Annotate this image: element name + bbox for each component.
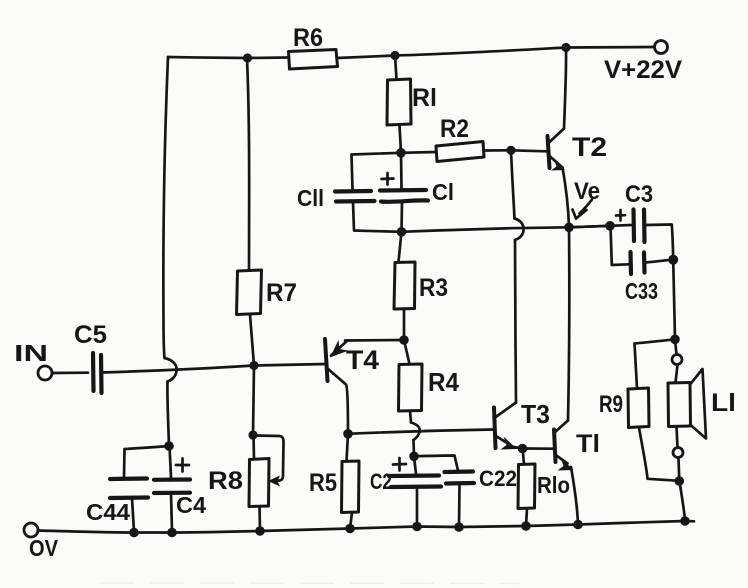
wire R1 bottom lead [400, 125, 402, 153]
capacitor C3 [634, 210, 645, 243]
resistor R1 [387, 79, 411, 125]
wire left rail lower segment [167, 382, 169, 447]
svg-text:OV: OV [29, 535, 59, 561]
wire R4 top lead [404, 340, 410, 364]
junction top rail R7 [243, 53, 252, 62]
junction R8 wiper node [248, 430, 257, 439]
svg-text:C33: C33 [625, 278, 658, 304]
resistor R10 [518, 464, 535, 509]
wire R8 bottom lead [258, 507, 261, 531]
wire C3 left lead [610, 224, 631, 228]
junction speaker R9 top node [670, 335, 680, 345]
terminal IN [38, 366, 52, 380]
wire R10 bottom lead [526, 509, 527, 527]
speaker L1 [668, 369, 706, 439]
junction C1 R3 Ve-rail node [397, 227, 407, 237]
wire T1 emitter to rail [571, 467, 578, 525]
wire C11 bottom bracket [353, 202, 401, 232]
wire right rail to bottom rail [680, 481, 686, 521]
capacitor C44 [110, 479, 148, 499]
wire T2 collector to top rail [564, 48, 566, 129]
junction C44 C4 top node [164, 441, 174, 451]
wire C1 top lead [400, 153, 403, 188]
wire C5 to R7 node (passes under rail hop) [102, 366, 255, 373]
arrow Ve pointer [573, 200, 593, 219]
capacitor C2 [389, 476, 441, 488]
svg-text:R7: R7 [266, 279, 297, 307]
capacitor C1 [380, 190, 428, 202]
junction rail C4 [167, 528, 177, 538]
wire R2 right lead [484, 149, 511, 152]
svg-text:V+22V: V+22V [604, 56, 682, 84]
junction rail C2 [412, 522, 422, 532]
junction R9 speaker bottom node [675, 476, 685, 486]
wire R5 bottom lead [350, 513, 352, 529]
junction rail R8 [255, 526, 265, 536]
wire C2 top lead [414, 456, 416, 474]
junction rail R10 [521, 521, 531, 531]
junction C2 C22 node [409, 452, 419, 462]
wire top rail to V+22V terminal [566, 46, 654, 49]
svg-text:R3: R3 [419, 274, 448, 302]
svg-text:T2: T2 [572, 132, 607, 162]
transistor T4 [325, 339, 349, 433]
junction T4 collector R5 node [343, 429, 353, 439]
wire right rail to speaker node [673, 260, 675, 339]
svg-text:R5: R5 [309, 469, 337, 497]
wire R8 top lead from input node [253, 366, 254, 436]
wire R8 wiper loop [255, 436, 284, 482]
svg-text:Cl: Cl [432, 179, 454, 205]
wire Ve rail [402, 226, 611, 232]
resistor R7 [237, 270, 262, 315]
capacitor C5 [93, 353, 102, 393]
wire left tall rail [163, 57, 168, 358]
svg-text:R2: R2 [440, 115, 469, 143]
wire hop to R2 T2 node [511, 150, 515, 218]
wire C3 right lead [645, 225, 673, 260]
wire R2 left lead [401, 151, 436, 155]
svg-text:Rl: Rl [412, 84, 437, 112]
wire R10 top lead [523, 449, 525, 465]
wire top rail left segment [168, 57, 247, 58]
plus sign C1 [382, 173, 394, 185]
svg-text:C22: C22 [479, 466, 517, 491]
junction R2 T2 base node [506, 146, 515, 155]
svg-text:C5: C5 [74, 321, 107, 349]
wire C1 bottom lead [400, 202, 403, 232]
wire node to C44 [124, 446, 169, 477]
wire C4 bottom lead [171, 494, 172, 532]
wire C44 bottom lead [132, 499, 134, 532]
junction rail R5 [345, 524, 355, 534]
junction rail right [680, 516, 690, 526]
wire top rail to T2 collector node [395, 48, 566, 56]
svg-text:IN: IN [14, 340, 48, 366]
resistor R5 [342, 461, 360, 513]
wire input node to T4 base [254, 364, 326, 366]
wire T4 emitter to node [345, 339, 404, 342]
svg-text:C44: C44 [86, 499, 130, 525]
wire hop to C2 node [412, 440, 415, 456]
terminal 0V [24, 523, 38, 537]
junction rail C44 [129, 528, 139, 538]
resistor R4 [399, 364, 423, 411]
wire C33 right lead [646, 260, 674, 263]
capacitor C11 [335, 191, 375, 202]
plus sign C4 [176, 459, 189, 472]
wire IN to C5 [52, 371, 88, 374]
wire T1 collector to Ve node [568, 227, 569, 420]
junction rail T1 emitter [573, 520, 583, 530]
wire C2 bottom lead [416, 488, 419, 527]
wire C11 top bracket [352, 153, 402, 189]
wire speaker bottom to node [677, 458, 680, 481]
svg-text:T4: T4 [346, 345, 379, 375]
wire left rail hop over input line [165, 358, 177, 382]
svg-text:T3: T3 [521, 399, 550, 429]
wire node to R9 top [635, 339, 676, 388]
wire C22 bottom lead [458, 484, 461, 527]
wire T3 collector up segment [515, 240, 516, 403]
junction top rail T2 [561, 43, 570, 52]
wire R7 top lead from rail [247, 58, 249, 270]
plus sign C2 [393, 458, 406, 471]
terminal speaker bottom [673, 448, 683, 458]
svg-text:R6: R6 [293, 24, 323, 52]
capacitor C4 [154, 480, 190, 494]
wire R3 bottom lead [403, 309, 406, 340]
junction T3 emitter T1 base R10 node [518, 444, 528, 454]
capacitor C33 [631, 252, 645, 274]
wire R1 top lead [395, 56, 397, 80]
junction R1 R2 C1 node [396, 148, 406, 158]
terminal speaker top [672, 355, 682, 365]
wire bottom rail [38, 521, 694, 533]
junction top rail R1 [390, 51, 399, 60]
resistor R6 [289, 50, 338, 70]
svg-text:Tl: Tl [576, 430, 600, 458]
wire C33 left bracket [611, 226, 629, 265]
transistor T2 [511, 129, 565, 171]
wire R4 hop over T4-T3 rail [411, 423, 420, 441]
svg-text:C3: C3 [625, 181, 653, 208]
svg-text:Rlo: Rlo [537, 472, 570, 498]
wire speaker bottom lead [677, 427, 678, 448]
wire T3 collector hop over Ve rail [515, 219, 524, 241]
wire T3 emitter to node [514, 447, 523, 449]
wire speaker top lead lower [676, 365, 678, 383]
terminal V+22V [655, 41, 668, 54]
potentiometer R8 [249, 459, 269, 507]
svg-text:R8: R8 [208, 467, 243, 495]
svg-text:C4: C4 [176, 492, 206, 518]
transistor T3 [494, 403, 517, 450]
wire Ve node to C3 [569, 226, 610, 228]
junction input line R7 [249, 361, 258, 370]
plus sign C3 [616, 210, 625, 221]
svg-text:C2: C2 [370, 469, 392, 494]
wire T2 emitter to Ve node [563, 168, 570, 228]
svg-text:R9: R9 [599, 391, 623, 418]
wire top rail R6 right lead [338, 56, 396, 59]
resistor R9 [628, 388, 649, 428]
svg-text:Ve: Ve [574, 178, 600, 205]
wire R8 node to pot body [252, 435, 255, 459]
junction C3 C33 right node [668, 255, 678, 265]
wire R7 bottom lead [250, 315, 254, 366]
transistor T1 [523, 421, 574, 471]
junction C3 left node [605, 221, 615, 231]
wire R9 bottom lead [639, 428, 679, 481]
resistor R3 [394, 262, 415, 309]
faint scan line bottom [100, 582, 520, 585]
wire node to C4 [170, 446, 172, 477]
resistor R2 [436, 142, 484, 162]
junction rail C22 [454, 522, 464, 532]
svg-text:Ll: Ll [711, 389, 736, 417]
junction T4 emitter R3 R4 node [399, 335, 409, 345]
wire R4 bottom lead [410, 411, 411, 423]
junction Ve node [564, 223, 574, 233]
wire R3 top lead [399, 232, 402, 262]
svg-text:R4: R4 [428, 367, 459, 397]
capacitor C22 [445, 472, 475, 484]
arrowhead R8 wiper [268, 476, 280, 487]
wire T4 collector rail to T3 base [348, 430, 493, 434]
wire top rail R6 left lead [247, 56, 288, 59]
wire R5 top lead [347, 434, 349, 461]
wire node to C22 [414, 456, 458, 471]
svg-text:Cll: Cll [297, 185, 324, 211]
wire speaker top lead [676, 345, 677, 355]
